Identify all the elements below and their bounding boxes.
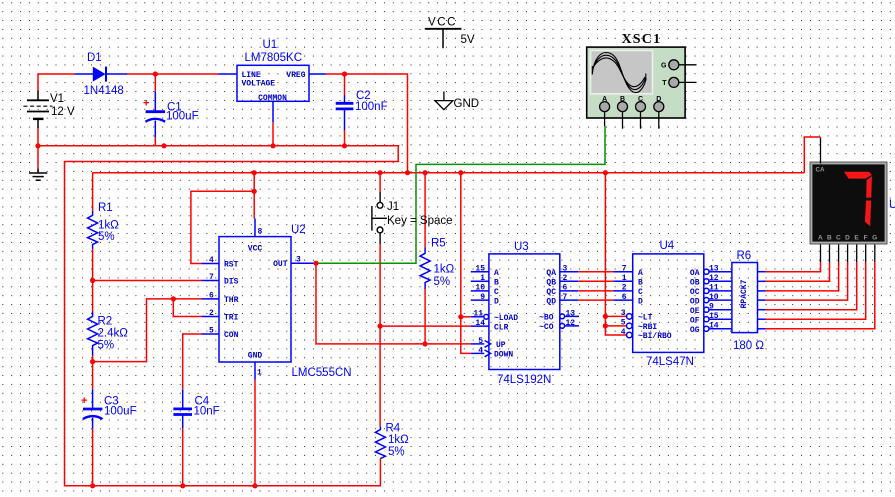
wire branch to LOAD pin <box>461 316 471 318</box>
junction C3 ground <box>90 483 95 488</box>
wire U1 output to down corner into VCC rail <box>326 74 408 173</box>
svg-text:R1: R1 <box>98 202 113 214</box>
svg-text:OUT: OUT <box>273 260 288 269</box>
svg-text:LM7805KC: LM7805KC <box>245 52 303 64</box>
wire branch to RBI pin <box>605 325 626 327</box>
svg-text:6: 6 <box>209 291 214 300</box>
junction U2 GND ground <box>252 483 257 488</box>
svg-text:100uF: 100uF <box>166 111 199 123</box>
junction U1 common <box>270 143 275 148</box>
svg-text:B: B <box>620 96 625 103</box>
svg-text:5: 5 <box>209 327 214 336</box>
svg-text:RPACK7: RPACK7 <box>740 279 749 308</box>
wire R5 bottom to UP net <box>424 289 426 344</box>
capacitor C3 <box>83 389 103 428</box>
wire DIS to R1/R2 junction <box>93 280 202 282</box>
junction VCC rail at R5 <box>423 170 428 175</box>
svg-text:OG: OG <box>690 326 700 335</box>
segment A lit <box>844 172 872 179</box>
svg-text:1N4148: 1N4148 <box>84 85 124 97</box>
svg-text:R6: R6 <box>737 250 752 262</box>
svg-text:5%: 5% <box>388 446 405 458</box>
svg-text:LMC555CN: LMC555CN <box>292 367 352 379</box>
wire R6 to display segment F <box>766 262 866 319</box>
GND power symbol <box>435 92 453 110</box>
svg-text:3: 3 <box>621 309 626 318</box>
junction C4 ground <box>180 483 185 488</box>
svg-text:~LOAD: ~LOAD <box>494 314 518 323</box>
svg-text:1kΩ: 1kΩ <box>98 220 119 232</box>
wire V1+ to D1 anode <box>38 74 75 91</box>
svg-text:F: F <box>864 235 868 242</box>
junction U2 pin8 RST branch <box>252 189 257 194</box>
wire U3 QB to U4 B <box>578 280 613 282</box>
svg-text:12: 12 <box>709 274 719 283</box>
resistor R1 <box>88 211 98 249</box>
svg-text:~CO: ~CO <box>539 323 554 332</box>
segment B lit <box>866 176 872 198</box>
svg-text:74LS192N: 74LS192N <box>497 374 551 386</box>
junction THR TRI <box>171 296 176 301</box>
counter U3 box <box>471 254 579 370</box>
junction U4 RBI <box>603 323 608 328</box>
svg-text:8: 8 <box>258 228 263 237</box>
capacitor C1 <box>146 91 166 137</box>
resistor R5 <box>420 248 430 290</box>
seven segment display U5 <box>810 138 887 263</box>
svg-text:XSC1: XSC1 <box>622 32 662 47</box>
svg-text:QD: QD <box>546 297 556 306</box>
svg-text:A: A <box>638 269 643 278</box>
svg-text:OD: OD <box>690 297 700 306</box>
wire R2 bottom to THR <box>93 299 202 362</box>
svg-text:T: T <box>662 80 667 87</box>
svg-text:4: 4 <box>209 256 214 265</box>
wire R6 to display segment E <box>766 262 857 310</box>
wire U2 GND to ground rail <box>254 380 256 486</box>
wire THR to TRI <box>173 299 201 317</box>
svg-text:VOLTAGE: VOLTAGE <box>242 80 276 89</box>
diode D1 <box>75 67 127 82</box>
junction R5 bottom UP net <box>423 341 428 346</box>
svg-text:2: 2 <box>563 274 568 283</box>
svg-text:2.4kΩ: 2.4kΩ <box>98 328 129 340</box>
svg-text:B: B <box>638 279 643 288</box>
wire U3 QA to U4 A <box>578 271 613 273</box>
wire branch to LT pin <box>605 315 626 317</box>
svg-text:CA: CA <box>816 166 825 173</box>
svg-text:RST: RST <box>224 261 239 270</box>
svg-text:5V: 5V <box>461 34 475 46</box>
svg-text:R4: R4 <box>386 423 401 435</box>
svg-text:3: 3 <box>296 256 301 265</box>
svg-text:U3: U3 <box>514 241 529 253</box>
svg-text:4: 4 <box>478 346 483 355</box>
junction U3 LOAD <box>458 314 463 319</box>
svg-text:U4: U4 <box>660 240 675 252</box>
resistor R4 <box>375 426 385 458</box>
svg-text:GND: GND <box>248 352 263 361</box>
wire U3 QC to U4 C <box>578 290 613 292</box>
resistor pack R6 box <box>732 263 766 333</box>
wire R6 to display segment B <box>766 262 830 281</box>
svg-text:UP: UP <box>496 341 506 350</box>
svg-text:A: A <box>818 235 823 242</box>
wire OUT down to UP pin of U3 <box>316 263 471 344</box>
svg-text:1: 1 <box>622 274 627 283</box>
VCC power symbol <box>425 29 462 48</box>
svg-text:CON: CON <box>224 331 239 340</box>
svg-text:QA: QA <box>546 269 556 278</box>
svg-text:1: 1 <box>257 369 262 378</box>
wire VCC rail to U3 LOAD and DOWN <box>461 173 471 354</box>
wire VCC rail to display CA <box>804 137 820 173</box>
wire VCC rail to U2 pin8 <box>253 173 255 219</box>
svg-text:G: G <box>872 235 877 242</box>
voltage regulator U1 box <box>219 65 327 122</box>
wire R2 bottom to C3 top <box>92 356 94 389</box>
svg-text:5%: 5% <box>434 276 451 288</box>
svg-text:TRI: TRI <box>224 314 239 323</box>
segment C lit <box>865 201 871 227</box>
svg-text:D: D <box>638 297 643 306</box>
junction VCC rail at J1 <box>378 170 383 175</box>
svg-text:VCC: VCC <box>428 17 457 29</box>
decoder U4 box <box>613 254 732 353</box>
svg-text:9: 9 <box>709 303 714 312</box>
junction VCC rail at U4 <box>603 170 608 175</box>
wire C4 bottom to ground rail <box>182 429 184 486</box>
svg-text:A: A <box>494 269 499 278</box>
wire R1 bottom to R2 top <box>92 249 94 312</box>
wire VCC rail to U4 LT RBI BI <box>605 173 626 335</box>
display pin stubs <box>821 138 875 263</box>
battery V1 <box>24 91 53 129</box>
svg-text:15: 15 <box>475 265 485 274</box>
junction VCC rail at U1 feed <box>405 170 410 175</box>
svg-text:7: 7 <box>563 293 568 302</box>
svg-text:R5: R5 <box>431 238 446 250</box>
svg-text:13: 13 <box>709 265 719 274</box>
svg-text:10: 10 <box>709 293 719 302</box>
junction C2 top <box>342 71 347 76</box>
svg-text:QC: QC <box>546 288 556 297</box>
svg-text:DOWN: DOWN <box>494 351 513 360</box>
wire C1 bottom to ground rail <box>154 137 156 146</box>
wire V1- to ground <box>37 128 39 168</box>
svg-text:3: 3 <box>563 265 568 274</box>
svg-text:E: E <box>854 235 859 242</box>
junction C1 top <box>153 71 158 76</box>
wire U1 common to ground rail <box>272 122 274 146</box>
switch J1 <box>372 192 387 244</box>
svg-text:C: C <box>494 288 499 297</box>
svg-text:10: 10 <box>475 284 485 293</box>
svg-text:Key = Space: Key = Space <box>387 215 453 227</box>
svg-text:U2: U2 <box>291 224 306 236</box>
wire U2 pin8 branch to RST <box>191 191 254 263</box>
wire C2 top drop <box>344 74 346 95</box>
junction C1 bottom <box>161 143 166 148</box>
svg-text:100uF: 100uF <box>104 406 137 418</box>
svg-text:100nF: 100nF <box>355 101 388 113</box>
junction V1 ground rail <box>35 143 40 148</box>
svg-text:D: D <box>845 235 850 242</box>
svg-text:1kΩ: 1kΩ <box>388 434 409 446</box>
svg-text:D: D <box>494 297 499 306</box>
svg-text:74LS47N: 74LS47N <box>646 356 694 368</box>
svg-text:R2: R2 <box>98 316 113 328</box>
junction R2 bottom <box>90 359 95 364</box>
svg-text:13: 13 <box>566 309 576 318</box>
svg-text:U1: U1 <box>263 39 278 51</box>
svg-text:5%: 5% <box>98 340 115 352</box>
svg-text:5%: 5% <box>98 231 115 243</box>
svg-text:J1: J1 <box>387 201 399 213</box>
svg-text:+: + <box>143 98 149 110</box>
svg-text:5: 5 <box>621 319 626 328</box>
svg-text:V1: V1 <box>50 93 64 105</box>
svg-text:A: A <box>602 96 607 103</box>
capacitor C4 <box>173 389 192 428</box>
svg-text:C: C <box>836 235 841 242</box>
svg-text:2: 2 <box>209 309 214 318</box>
svg-text:~RBI: ~RBI <box>638 323 657 332</box>
svg-text:VCC: VCC <box>248 245 263 254</box>
junction VCC rail at U3 <box>458 170 463 175</box>
svg-text:2: 2 <box>622 284 627 293</box>
svg-text:7: 7 <box>209 273 214 282</box>
wire C3 bottom to ground rail <box>92 429 94 486</box>
wire R6 to display segment G <box>766 262 875 329</box>
svg-text:C: C <box>638 96 643 103</box>
svg-text:OA: OA <box>690 269 700 278</box>
resistor R2 <box>88 312 98 356</box>
wire J1 bottom to R4 top <box>379 244 381 426</box>
wire C1 top drop <box>154 74 156 91</box>
svg-text:OF: OF <box>690 316 700 325</box>
svg-text:G: G <box>661 63 667 70</box>
wire VCC rail to J1 top <box>379 173 381 192</box>
ground symbol V1 <box>29 169 47 181</box>
wire D1 cathode to U1 input <box>127 73 219 75</box>
svg-text:~BI/RBO: ~BI/RBO <box>638 332 672 341</box>
timer U2 box <box>202 219 314 380</box>
svg-text:OC: OC <box>690 288 700 297</box>
svg-text:B: B <box>494 279 499 288</box>
svg-text:~BO: ~BO <box>539 314 554 323</box>
wire U3 QD to U4 D <box>578 299 613 301</box>
svg-text:12: 12 <box>566 319 576 328</box>
svg-text:1: 1 <box>480 274 485 283</box>
svg-text:9: 9 <box>480 293 485 302</box>
svg-text:6: 6 <box>622 293 627 302</box>
junction U2 OUT <box>313 261 318 266</box>
svg-text:C: C <box>638 288 643 297</box>
svg-text:D: D <box>656 96 661 103</box>
capacitor C2 <box>336 95 354 130</box>
svg-text:D1: D1 <box>87 52 102 64</box>
svg-text:6: 6 <box>563 284 568 293</box>
svg-text:4: 4 <box>621 328 626 337</box>
svg-text:~LT: ~LT <box>638 314 653 323</box>
svg-text:U: U <box>889 199 895 211</box>
junction C2 bottom <box>342 143 347 148</box>
wire ground rail top and left and bottom <box>38 146 398 486</box>
svg-text:QB: QB <box>546 279 556 288</box>
svg-text:+: + <box>81 395 87 407</box>
svg-text:11: 11 <box>709 284 719 293</box>
svg-text:B: B <box>827 235 832 242</box>
svg-text:THR: THR <box>224 296 239 305</box>
wire R6 to display segment D <box>766 262 848 300</box>
svg-text:14: 14 <box>709 322 719 331</box>
wire green scope A to U2 OUT <box>316 126 605 263</box>
svg-text:7: 7 <box>622 265 627 274</box>
junction J1 CLR R4 <box>378 324 383 329</box>
svg-text:VREG: VREG <box>286 71 305 80</box>
svg-text:GND: GND <box>454 98 480 110</box>
svg-text:DIS: DIS <box>224 278 239 287</box>
wire C2 bottom to ground rail <box>344 130 346 146</box>
svg-text:14: 14 <box>475 319 485 328</box>
svg-text:12 V: 12 V <box>51 106 75 118</box>
svg-text:OE: OE <box>690 307 700 316</box>
svg-text:180 Ω: 180 Ω <box>733 340 764 352</box>
junction DIS at R1 R2 <box>90 278 95 283</box>
svg-text:15: 15 <box>709 312 719 321</box>
svg-text:CLR: CLR <box>494 323 509 332</box>
svg-text:COMMON: COMMON <box>258 94 287 103</box>
wire VCC rail to R5 top <box>424 173 426 248</box>
wire J1 net to CLR <box>380 325 471 327</box>
junction VCC rail at U2 pin8 <box>252 170 257 175</box>
wire R1 top <box>92 173 94 211</box>
wire R6 to display segment C <box>766 262 839 291</box>
svg-text:5: 5 <box>478 337 483 346</box>
svg-text:10nF: 10nF <box>194 406 220 418</box>
junction U4 LT <box>603 314 608 319</box>
wire R6 to display segment A <box>766 262 821 272</box>
svg-text:11: 11 <box>473 310 483 319</box>
svg-text:1kΩ: 1kΩ <box>434 264 455 276</box>
svg-text:OB: OB <box>690 279 700 288</box>
wire VCC rail horizontal <box>93 172 805 174</box>
wire CON to C4 top <box>183 334 202 389</box>
oscilloscope XSC1 <box>587 47 697 129</box>
